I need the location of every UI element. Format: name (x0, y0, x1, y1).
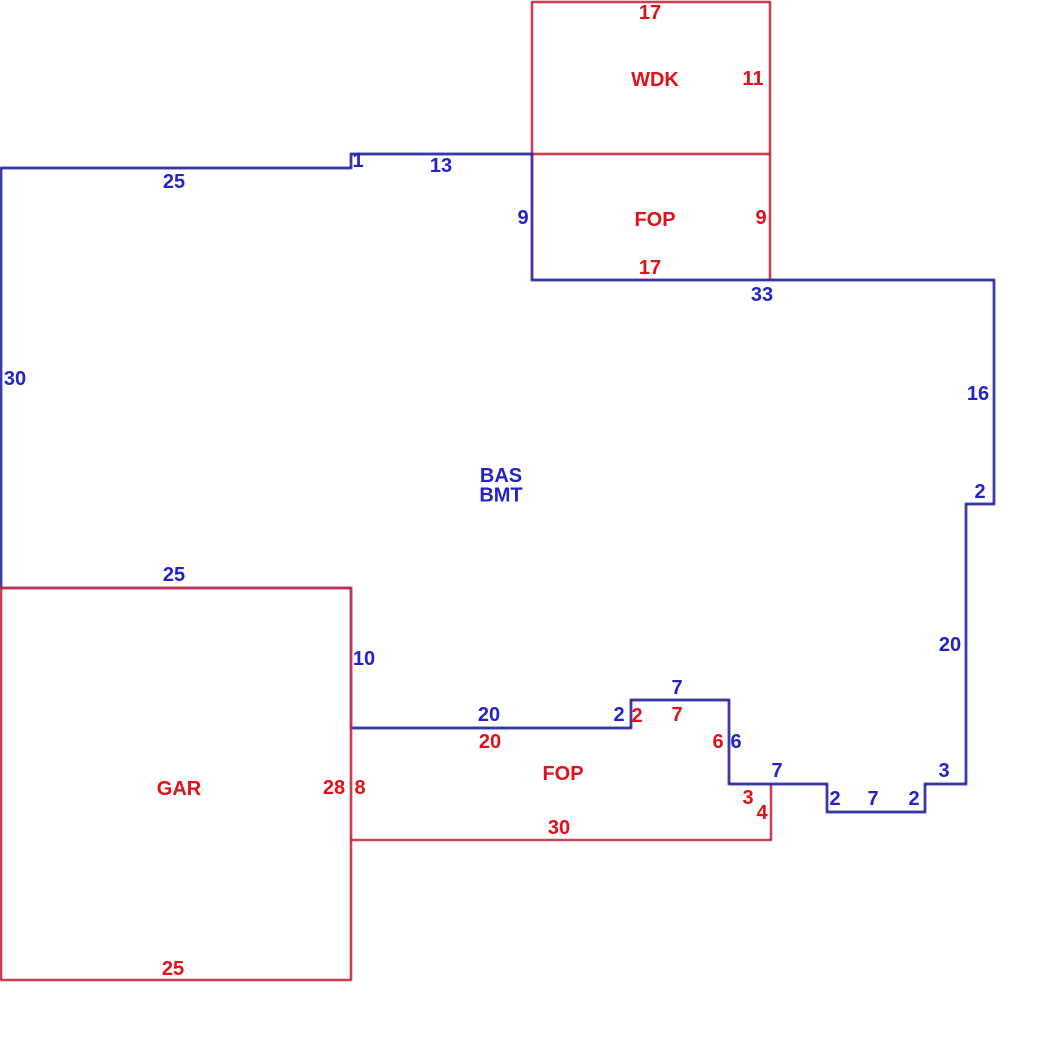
svg-text:1: 1 (352, 150, 363, 172)
svg-text:2: 2 (829, 788, 840, 810)
svg-text:4: 4 (756, 802, 768, 824)
svg-text:9: 9 (517, 207, 528, 229)
svg-text:9: 9 (755, 207, 766, 229)
svg-text:25: 25 (163, 564, 185, 586)
svg-text:3: 3 (938, 760, 949, 782)
svg-text:WDK: WDK (631, 69, 679, 91)
WDK area outline (532, 2, 770, 154)
BAS/BMT area outline (1, 154, 994, 812)
svg-text:30: 30 (548, 817, 570, 839)
svg-text:10: 10 (353, 648, 375, 670)
svg-text:7: 7 (867, 788, 878, 810)
svg-text:6: 6 (730, 731, 741, 753)
svg-text:7: 7 (671, 677, 682, 699)
svg-text:2: 2 (908, 788, 919, 810)
FOP lower area outline (351, 700, 771, 840)
svg-text:2: 2 (613, 704, 624, 726)
svg-text:17: 17 (639, 2, 661, 24)
svg-text:BMT: BMT (479, 485, 522, 507)
svg-text:2: 2 (974, 481, 985, 503)
svg-text:25: 25 (163, 171, 185, 193)
FOP upper area outline (532, 154, 770, 280)
svg-text:11: 11 (742, 68, 763, 90)
svg-text:6: 6 (712, 731, 723, 753)
svg-text:20: 20 (479, 731, 501, 753)
svg-text:7: 7 (671, 704, 682, 726)
GAR area outline (1, 588, 351, 980)
svg-text:17: 17 (639, 257, 661, 279)
svg-text:FOP: FOP (542, 763, 583, 785)
svg-text:GAR: GAR (157, 778, 202, 800)
svg-text:FOP: FOP (634, 209, 675, 231)
svg-text:8: 8 (354, 777, 365, 799)
svg-text:30: 30 (4, 368, 26, 390)
svg-text:7: 7 (771, 760, 782, 782)
svg-text:28: 28 (323, 777, 345, 799)
svg-text:20: 20 (939, 634, 961, 656)
svg-text:25: 25 (162, 958, 184, 980)
svg-text:33: 33 (751, 284, 773, 306)
svg-text:3: 3 (742, 787, 753, 809)
svg-text:13: 13 (430, 155, 452, 177)
svg-text:2: 2 (631, 705, 642, 727)
svg-text:20: 20 (478, 704, 500, 726)
svg-text:16: 16 (967, 383, 989, 405)
